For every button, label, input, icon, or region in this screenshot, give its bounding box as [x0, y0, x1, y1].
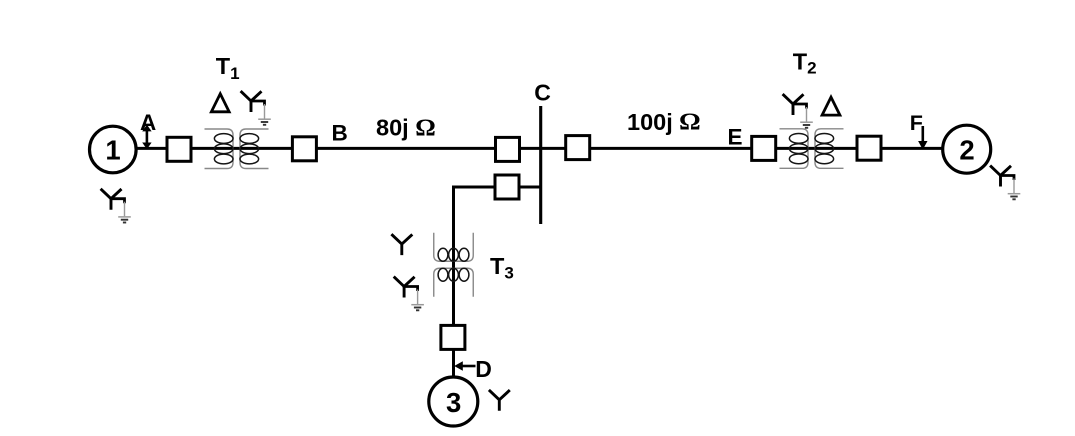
svg-text:D: D [475, 356, 492, 382]
svg-text:F: F [910, 111, 923, 135]
svg-text:3: 3 [446, 387, 461, 418]
svg-text:B: B [331, 121, 347, 146]
svg-text:80j: 80j [376, 114, 409, 140]
svg-text:C: C [534, 80, 551, 106]
svg-text:T1: T1 [216, 53, 240, 83]
svg-text:E: E [727, 124, 742, 149]
svg-text:100j: 100j [627, 109, 673, 135]
svg-text:Ω: Ω [679, 110, 701, 136]
svg-text:1: 1 [105, 135, 120, 166]
svg-text:T3: T3 [490, 253, 514, 283]
svg-text:T2: T2 [793, 49, 817, 78]
svg-text:Ω: Ω [415, 115, 436, 141]
svg-text:A: A [140, 110, 156, 135]
svg-text:2: 2 [959, 135, 974, 166]
